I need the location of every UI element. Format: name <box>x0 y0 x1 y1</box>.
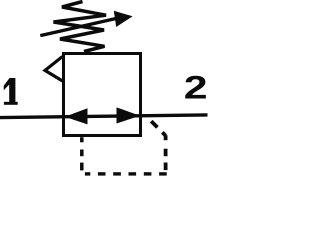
svg-text:2: 2 <box>184 71 208 107</box>
